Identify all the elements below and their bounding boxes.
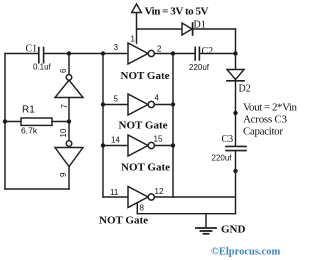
wire inverter column top <box>68 54 70 75</box>
node junction R1 left <box>3 119 7 123</box>
wire gate2 input <box>103 104 128 106</box>
capacitor C1 <box>39 48 44 63</box>
svg-text:C3: C3 <box>222 134 234 145</box>
svg-text:Across C3: Across C3 <box>243 114 288 126</box>
capacitor C3 plates <box>226 146 246 150</box>
node Vin arrow <box>132 4 142 13</box>
svg-text:©Elprocus.com: ©Elprocus.com <box>211 247 280 258</box>
resistor R1 body <box>21 118 52 125</box>
svg-text:C2: C2 <box>202 46 214 57</box>
op-amp U1A inverter triangle apex-up <box>55 80 83 97</box>
svg-text:GND: GND <box>221 224 246 236</box>
not-gate U2C triangle (pins 14,15) <box>128 135 148 156</box>
wire R1 right lead <box>52 121 69 123</box>
wire gate4 output to right <box>154 196 235 198</box>
svg-text:15: 15 <box>154 135 163 144</box>
svg-text:8: 8 <box>140 204 145 213</box>
capacitor C2 <box>195 47 199 60</box>
svg-text:220uf: 220uf <box>212 154 233 163</box>
op-amp U1B bubble (pin 10) <box>66 141 72 147</box>
svg-text:14: 14 <box>111 136 120 145</box>
svg-text:10: 10 <box>59 128 68 137</box>
node junction C1/input bus <box>101 51 105 55</box>
wire C2 to right vertical <box>200 53 235 55</box>
svg-text:6: 6 <box>59 68 68 73</box>
wire gate3 output <box>154 145 173 147</box>
wire right vertical top <box>235 29 237 70</box>
diode D1 cathode bar <box>192 23 194 35</box>
svg-text:4: 4 <box>155 94 160 103</box>
wire gate4 input <box>103 196 128 198</box>
wire R1 left lead <box>5 121 21 123</box>
svg-text:NOT Gate: NOT Gate <box>121 70 170 82</box>
diode D2 cathode bar <box>227 80 244 82</box>
ground GND stem <box>205 214 207 228</box>
svg-text:3: 3 <box>114 43 119 52</box>
wire gate1 output to C2 <box>154 53 194 55</box>
svg-text:220uf: 220uf <box>189 63 210 72</box>
not-gate U2D bubble <box>148 194 154 200</box>
wire inverter column middle <box>68 98 70 141</box>
wire left vertical <box>4 54 6 190</box>
svg-text:0.1uf: 0.1uf <box>33 63 52 72</box>
svg-text:D2: D2 <box>239 84 251 95</box>
not-gate U2A triangle (pins 3,2) <box>128 43 148 64</box>
node junction R1 right <box>67 119 71 123</box>
svg-text:NOT Gate: NOT Gate <box>99 215 148 227</box>
diode D2 triangle <box>227 70 244 80</box>
svg-text:12: 12 <box>155 187 164 196</box>
wire D1 to right vertical <box>193 28 236 30</box>
svg-text:9: 9 <box>59 172 68 177</box>
svg-text:5: 5 <box>114 95 119 104</box>
node junction bus/gate3 input <box>101 143 105 147</box>
svg-text:1: 1 <box>131 35 136 44</box>
node junction bus/gate2 input <box>101 102 105 106</box>
wire Vin vertical with pin1 stub <box>136 13 138 44</box>
svg-text:6.7k: 6.7k <box>21 126 38 136</box>
op-amp U1B inverter triangle apex-down <box>55 148 83 167</box>
wire C3 down to rail <box>235 151 237 214</box>
svg-text:R1: R1 <box>22 105 35 116</box>
node junction C1/inverter column <box>67 51 71 55</box>
node Vout between D2 and C3 <box>233 111 237 115</box>
wire output bus vertical <box>172 54 174 198</box>
node junction C2/right vertical <box>233 51 237 55</box>
svg-text:D1: D1 <box>194 20 206 31</box>
diode D1 triangle <box>182 23 192 35</box>
wire input bus vertical <box>102 54 104 198</box>
wire inverter column bottom <box>68 167 70 190</box>
wire pin8 stub <box>136 203 138 214</box>
svg-text:Vin = 3V to 5V: Vin = 3V to 5V <box>145 6 209 18</box>
wire C1 to gate1 input <box>44 53 128 55</box>
svg-text:NOT Gate: NOT Gate <box>119 120 168 132</box>
svg-text:Capacitor: Capacitor <box>243 126 283 138</box>
svg-text:7: 7 <box>60 104 69 109</box>
node junction gate3 output <box>171 143 175 147</box>
not-gate U2C bubble <box>148 142 154 148</box>
node below C3 <box>233 169 237 173</box>
wire Vin to D1 <box>137 28 183 30</box>
wire top rail left (C1 left lead) <box>5 53 38 55</box>
svg-text:NOT Gate: NOT Gate <box>121 162 170 174</box>
svg-text:Vout = 2*Vin: Vout = 2*Vin <box>243 102 298 114</box>
not-gate U2B triangle (pins 5,4) <box>128 94 148 115</box>
ground GND bars <box>196 227 216 229</box>
not-gate U2D triangle (pins 11,12) <box>128 187 148 208</box>
not-gate U2A bubble <box>148 50 154 56</box>
op-amp U1A bubble (inverter output pin 6) <box>66 75 72 81</box>
not-gate U2B bubble <box>148 101 154 107</box>
wire gate3 input <box>103 145 128 147</box>
wire gate2 output <box>154 104 173 106</box>
node junction gate1 output bus <box>171 51 175 55</box>
svg-text:11: 11 <box>110 188 119 197</box>
svg-text:2: 2 <box>157 45 162 54</box>
svg-text:C1: C1 <box>26 44 38 55</box>
node junction gate2 output <box>171 102 175 106</box>
wire bottom-left feedback <box>5 188 69 190</box>
wire D2 to C3 <box>235 81 237 146</box>
wire bottom rail <box>137 213 235 215</box>
